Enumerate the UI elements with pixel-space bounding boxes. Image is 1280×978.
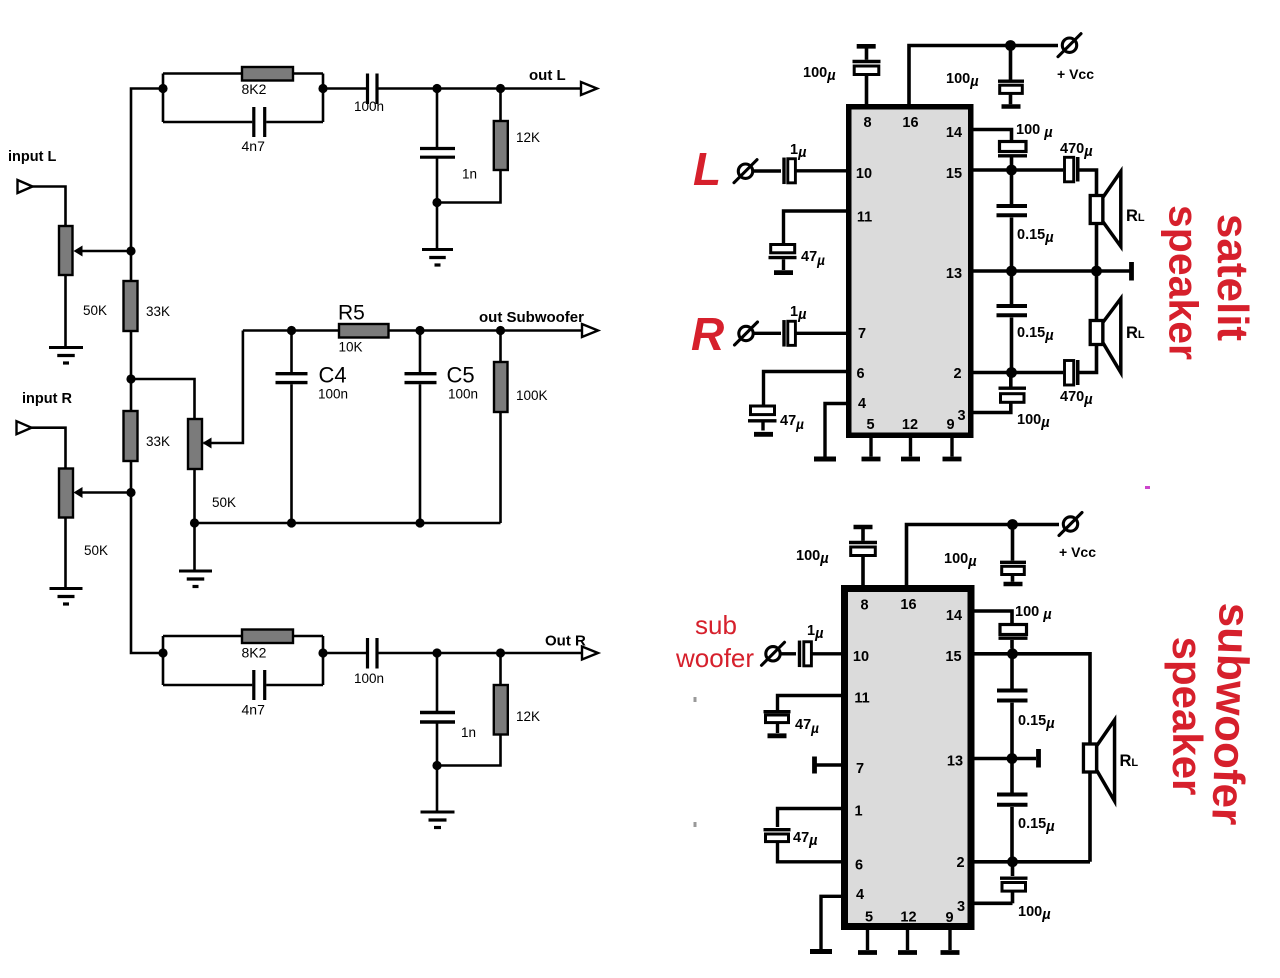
capacitor 1n top (420, 147, 455, 150)
svg-text:8K2: 8K2 (242, 645, 267, 661)
speaker RL satellite 2 (1103, 299, 1121, 373)
svg-text:9: 9 (946, 417, 954, 433)
wire 1n to ground junction (436, 159, 439, 203)
svg-text:out L: out L (529, 67, 566, 84)
scan artifact magenta dash (1145, 486, 1150, 489)
svg-text:11: 11 (857, 210, 872, 226)
svg-text:1n: 1n (462, 167, 477, 182)
junction 12K bottom (496, 648, 505, 657)
wire 470u to speaker 2 (1080, 344, 1097, 373)
wire 470u to speaker 1 (1080, 170, 1097, 196)
junction ground net bottom (432, 761, 441, 770)
svg-text:1: 1 (854, 804, 862, 820)
wire junction to sub pot (131, 379, 195, 419)
wire 0.15u lower U1 (1010, 271, 1014, 304)
resistor 12K top (494, 121, 508, 170)
Out R arrow (582, 647, 598, 660)
svg-text:sub: sub (695, 610, 737, 640)
capacitor 4n7 top (252, 107, 255, 137)
capacitor 100u pin14 U1 (1000, 142, 1027, 152)
wire pin 12 U1 ground stub (909, 438, 912, 457)
junction pin15 U2 (1007, 648, 1018, 659)
svg-text:12: 12 (902, 417, 918, 433)
wire junction to 1n bottom (436, 653, 439, 711)
junction pin13 U2 (1007, 753, 1018, 764)
top branch wire R (163, 635, 323, 638)
junction pin13-speaker U1 (1091, 266, 1102, 277)
junction pin15 U1 (1006, 165, 1017, 176)
svg-text:R: R (691, 308, 724, 360)
capacitor 100u pin14 U2 (1000, 625, 1027, 635)
wire 1n to ground junction bottom (436, 724, 439, 766)
capacitor C4 100n (276, 372, 308, 375)
wire pin 4 U1 to ground bar (825, 404, 846, 457)
wire to 100n top (323, 87, 366, 90)
wire 100n to out L arrow (379, 87, 583, 90)
svg-text:6: 6 (855, 858, 863, 874)
capacitor 0.15u upper U1 (997, 204, 1028, 208)
svg-text:50K: 50K (84, 543, 108, 558)
svg-text:2: 2 (953, 366, 961, 382)
wire pin 12 U2 ground stub (906, 930, 909, 950)
wire pot L to ground (64, 275, 67, 347)
wire to 100n bottom (323, 652, 366, 655)
left rail RC network L (162, 74, 165, 123)
capacitor 1n bottom (420, 711, 455, 714)
left rail RC network R (162, 636, 165, 685)
resistor 8K2 bottom (242, 630, 293, 644)
svg-text:woofer: woofer (675, 643, 754, 673)
svg-text:4: 4 (856, 887, 864, 903)
junction C4 top (287, 326, 296, 335)
svg-text:12K: 12K (516, 709, 540, 724)
wire pot R to ground (64, 518, 67, 589)
ground sub pot (179, 570, 212, 573)
wire pin 1 U2 to 47u (778, 809, 842, 828)
svg-text:5: 5 (865, 910, 873, 926)
wire sub pot bottom (193, 469, 196, 523)
wire pin 11 U2 to 47u (778, 696, 842, 711)
wire 0.15u upper U1 (1010, 174, 1014, 204)
wire 100K bottom (499, 412, 502, 523)
svg-text:100n: 100n (354, 671, 384, 686)
wire pin 2 U2 (975, 860, 1091, 864)
svg-text:4: 4 (858, 396, 866, 412)
svg-text:3: 3 (957, 899, 965, 915)
svg-text:R5: R5 (338, 302, 365, 325)
wiper arrow pot input L (82, 250, 131, 253)
svg-text:speaker: speaker (1161, 205, 1207, 360)
svg-text:8: 8 (863, 115, 871, 131)
svg-text:speaker: speaker (1164, 637, 1211, 796)
wire 47u to pin 6 U2 (778, 842, 842, 862)
junction Vcc U1 (1005, 40, 1016, 51)
junction bus-wiper R (126, 488, 135, 497)
svg-text:satelit: satelit (1208, 214, 1257, 342)
IC U2 subwoofer amplifier body (841, 585, 975, 930)
wire sub input to 1u (781, 652, 797, 655)
capacitor 0.15u upper U2 (997, 689, 1028, 693)
svg-text:2: 2 (956, 855, 964, 871)
capacitor 470u pin2 U1 (1065, 361, 1074, 386)
terminal bar pin13 U1 (1129, 262, 1134, 281)
wire to ground top net (436, 203, 439, 250)
wire pin 4 U2 to ground bar (821, 896, 841, 949)
wire pin 5 U2 ground stub (866, 930, 869, 950)
junction Vcc U2 (1007, 519, 1018, 530)
svg-text:C4: C4 (319, 363, 347, 388)
junction C5 bottom (415, 518, 424, 527)
wire C5 bottom (419, 384, 422, 523)
junction out of RC network R (318, 648, 327, 657)
ground top net (422, 248, 453, 251)
svg-text:7: 7 (856, 761, 864, 777)
top rail subwoofer filter (243, 329, 582, 332)
wire C5 top (419, 331, 422, 373)
svg-text:13: 13 (946, 266, 962, 282)
wire pin 3 U1 to 100u (974, 403, 1011, 413)
capacitor 0.15u lower U2 (997, 793, 1028, 797)
svg-text:100n: 100n (354, 99, 384, 114)
junction C4 bottom (287, 518, 296, 527)
junction bus-wiper L (126, 246, 135, 255)
wire speaker 2 top to pin13 rail (1095, 271, 1099, 321)
bottom branch wire L with 4n7 (163, 121, 252, 124)
wire pin 8 U2 to 100u (861, 556, 865, 586)
input R connector arrow (17, 421, 32, 434)
wire 12K branch bottom (499, 653, 502, 685)
wire pin 9 U2 ground stub (948, 930, 951, 950)
svg-text:9: 9 (945, 910, 953, 926)
svg-text:12K: 12K (516, 130, 540, 145)
svg-text:50K: 50K (212, 495, 236, 510)
wire to ground bottom net (436, 766, 439, 812)
svg-text:16: 16 (900, 597, 916, 613)
wire 1u to pin 7 U1 (796, 332, 846, 335)
svg-text:14: 14 (946, 125, 962, 141)
right rail RC network R (322, 636, 325, 685)
capacitor 100n top (366, 74, 369, 105)
junction ground net top (432, 198, 441, 207)
svg-text:input L: input L (8, 149, 56, 165)
resistor 100K (494, 362, 508, 412)
wire sub pot to ground (193, 523, 196, 571)
scan artifact gray tick 1 (694, 697, 697, 702)
svg-text:100K: 100K (516, 388, 548, 403)
potentiometer 50K input L (59, 226, 73, 275)
wire speaker to pin2 rail U2 (1088, 772, 1092, 862)
svg-text:50K: 50K (83, 303, 107, 318)
capacitor 100u Vcc U1 (1009, 46, 1013, 80)
capacitor 100u pin8 U2 (849, 541, 877, 544)
wire 1u to pin 10 U2 (812, 652, 841, 655)
wire junction to 1n (436, 89, 439, 148)
svg-text:11: 11 (854, 691, 869, 707)
svg-text:+ Vcc: + Vcc (1057, 66, 1094, 82)
svg-text:out Subwoofer: out Subwoofer (479, 309, 584, 326)
wire 0.15u lower U2 (1010, 759, 1014, 793)
svg-text:13: 13 (947, 754, 963, 770)
input L connector circle U1 (738, 164, 752, 178)
wire pin 16 U1 to Vcc rail (909, 46, 1058, 105)
wiper arrow sub pot (203, 438, 212, 449)
input R connector circle U1 (739, 326, 753, 340)
input L connector arrow (18, 180, 33, 193)
wire 0.15u upper U2 (1010, 658, 1014, 689)
svg-text:10: 10 (853, 649, 869, 665)
junction pin2 U1 (1006, 367, 1017, 378)
capacitor 1u L U1 (782, 158, 785, 185)
wire pin 2 U1 to 470u (974, 371, 1064, 375)
wire pin 5 U1 ground stub (869, 438, 872, 457)
out L arrow (581, 82, 597, 95)
resistor R5 10K (339, 324, 389, 338)
potentiometer 50K sub (188, 419, 202, 469)
wire pin 14 U2 to 100u (975, 611, 1013, 625)
speaker RL subwoofer (1097, 720, 1115, 801)
capacitor 1u sub U2 (798, 641, 801, 668)
capacitor 47u pin11 U1 (771, 245, 795, 253)
svg-text:10K: 10K (339, 340, 363, 355)
junction bottom rail left (190, 518, 199, 527)
resistor 33K upper (124, 281, 138, 331)
svg-text:1n: 1n (461, 725, 476, 740)
wire 12K bottom to junction (437, 170, 501, 203)
junction 100K top (496, 326, 505, 335)
capacitor 47u pin11 U2 (764, 710, 791, 713)
svg-text:33K: 33K (146, 434, 170, 449)
svg-text:12: 12 (900, 910, 916, 926)
junction 1n top (432, 84, 441, 93)
svg-text:+ Vcc: + Vcc (1059, 544, 1096, 560)
capacitor 100u Vcc U2 (1011, 525, 1015, 561)
Vcc connector circle U1 (1062, 38, 1076, 52)
node: input-L bus wire (vertical main bus) (131, 89, 163, 654)
wire sub pot wiper to filter (204, 331, 243, 444)
wire 100K top (499, 331, 502, 363)
svg-text:Out R: Out R (545, 633, 586, 650)
IC U1 satellite amplifier body (846, 104, 974, 438)
bottom branch wire R with 4n7 (163, 684, 252, 687)
svg-text:33K: 33K (146, 304, 170, 319)
wire speaker 1 to pin13 rail (1095, 224, 1099, 272)
junction 12K top (496, 84, 505, 93)
capacitor 1u R U1 (782, 320, 785, 347)
capacitor 0.15u lower U1 (997, 304, 1028, 308)
wire pin 13 U2 stub (975, 757, 1037, 761)
wire pin 15 U2 to speaker (975, 654, 1091, 744)
svg-text:4n7: 4n7 (242, 138, 266, 154)
scan artifact gray tick 2 (694, 822, 697, 827)
Vcc connector circle U2 (1063, 517, 1077, 531)
capacitor 100u pin3 U1 (1001, 394, 1025, 403)
wire C4 top (290, 331, 293, 373)
svg-text:C5: C5 (447, 363, 475, 388)
svg-text:5: 5 (866, 417, 874, 433)
ground input L pot (49, 346, 83, 349)
wiper arrow pot input R (82, 491, 131, 494)
resistor 33K lower (124, 411, 138, 461)
input sub connector circle U2 (766, 647, 780, 661)
wire 12K to junction bottom (437, 735, 501, 766)
svg-text:6: 6 (856, 366, 864, 382)
wire pin 15 U1 to 470u (974, 168, 1064, 172)
svg-text:100n: 100n (448, 387, 478, 402)
junction pin13-0.15u U1 (1006, 266, 1017, 277)
wire L input to 1u (753, 169, 781, 172)
capacitor C5 100n (405, 372, 437, 375)
svg-text:15: 15 (945, 649, 961, 665)
svg-text:8: 8 (860, 598, 868, 614)
speaker RL satellite 1 (1103, 172, 1121, 247)
wire pin 9 U1 ground stub (950, 438, 953, 457)
junction bus mid (126, 374, 135, 383)
junction pin2 U2 (1007, 856, 1018, 867)
svg-text:10: 10 (856, 166, 872, 182)
capacitor 100u pin3 U2 (1011, 862, 1015, 876)
ground input R pot (50, 587, 83, 590)
right rail RC network L (322, 74, 325, 123)
wire pin 7 U2 stub (816, 763, 841, 766)
capacitor 47u pins1-6 U2 (764, 828, 791, 831)
wire R input to 1u (754, 332, 782, 335)
junction 1n bottom (432, 648, 441, 657)
capacitor 470u pin15 U1 (1065, 157, 1074, 182)
capacitor 100n bottom (366, 638, 369, 669)
wire pin 16 U2 to Vcc rail (907, 525, 1060, 586)
terminal bar pin13 U2 (1036, 749, 1041, 768)
junction node input net R (158, 648, 167, 657)
junction C5 top (415, 326, 424, 335)
svg-text:3: 3 (957, 408, 965, 424)
svg-text:16: 16 (902, 115, 918, 131)
junction node input net L (158, 84, 167, 93)
svg-text:100n: 100n (318, 387, 348, 402)
svg-text:L: L (693, 143, 721, 195)
top branch wire L (163, 72, 323, 75)
capacitor 100u pin8 U1 (853, 60, 881, 63)
bottom rail subwoofer filter (195, 522, 501, 525)
ground bottom net (421, 811, 455, 814)
wire input R to pot (31, 428, 66, 469)
wire pin 14 U1 to 100u (974, 130, 1012, 142)
wire 12K branch top (499, 89, 502, 122)
wire pin 13 U1 (974, 269, 1130, 273)
junction out of RC network L (318, 84, 327, 93)
capacitor 47u pin6 U1 (751, 406, 775, 415)
resistor 12K bottom (494, 685, 508, 735)
wire pin 6 U1 to 47u (764, 372, 847, 407)
svg-text:15: 15 (946, 166, 962, 182)
terminal bar pin7 U2 (812, 757, 817, 774)
wire input L to pot (33, 187, 66, 227)
resistor 8K2 top (242, 67, 293, 81)
svg-text:input R: input R (22, 391, 72, 407)
wire pin 11 U1 to 47u (784, 211, 847, 245)
wire pin 8 U1 to 100u (865, 75, 869, 105)
svg-text:8K2: 8K2 (242, 81, 267, 97)
svg-text:4n7: 4n7 (242, 702, 266, 718)
potentiometer 50K input R (59, 469, 73, 518)
out Subwoofer arrow (582, 324, 598, 337)
wire 100n to Out R arrow (379, 652, 583, 655)
wire 1u to pin 10 U1 (796, 169, 846, 172)
svg-text:14: 14 (946, 608, 962, 624)
wire C4 bottom (290, 384, 293, 523)
svg-text:7: 7 (858, 326, 866, 342)
capacitor 4n7 bottom (252, 670, 255, 700)
wire 100u to pin 3 U2 (975, 901, 1013, 905)
